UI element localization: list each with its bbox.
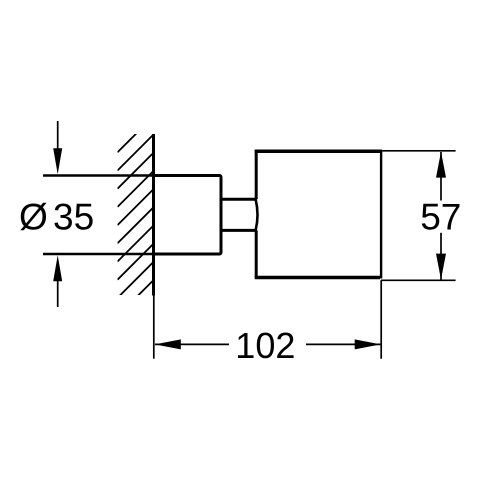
svg-text:35: 35 bbox=[53, 197, 94, 238]
svg-text:57: 57 bbox=[420, 197, 461, 238]
svg-text:Ø: Ø bbox=[19, 197, 48, 238]
svg-text:102: 102 bbox=[235, 325, 295, 366]
